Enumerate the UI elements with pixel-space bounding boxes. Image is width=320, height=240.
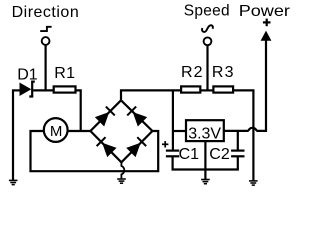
switch S2 Speed contact circle <box>204 37 212 45</box>
wire rail down to regulator input (T at x=173.3) <box>172 90 174 150</box>
diode D1 cathode bar with hooks <box>29 82 35 97</box>
svg-text:Power: Power <box>239 2 291 20</box>
wire D1 cathode to R1 <box>33 89 54 91</box>
capacitor C1 plates <box>166 151 179 157</box>
wire switch S2 down to R2/R3 node <box>206 45 208 90</box>
ground R3 drop <box>249 181 258 185</box>
wire C1 bottom lead to cap rail <box>173 156 238 169</box>
bridge diode lower-left <box>96 136 117 157</box>
wire motor left to loop corner <box>31 131 159 171</box>
node wire D1 anode to left rail <box>12 89 21 91</box>
bridge diode upper-right <box>126 106 147 127</box>
resistor R2 body <box>181 86 200 92</box>
bridge diode upper-left <box>95 106 116 127</box>
svg-text:D1: D1 <box>17 66 38 83</box>
diode D1 (schottky) triangle <box>20 83 32 97</box>
switch S1 Direction contact circle <box>42 37 50 45</box>
svg-text:C1: C1 <box>179 146 200 163</box>
power input arrow head <box>261 31 272 41</box>
wire regulator bottom pin to rail and ground <box>204 141 206 179</box>
bridge diamond wires <box>90 100 152 162</box>
wire R1 right then down to motor node <box>76 90 81 131</box>
svg-text:Direction: Direction <box>12 4 80 21</box>
wire R2 to R3 <box>200 89 213 91</box>
wire bridge bottom vertex to hop <box>121 162 124 178</box>
svg-text:M: M <box>50 123 63 140</box>
svg-text:R3: R3 <box>212 64 235 81</box>
label + of C1 <box>162 141 168 147</box>
wire switch S1 down to D1/R1 node <box>44 45 46 91</box>
switch S1 Direction lever <box>40 27 51 31</box>
resistor R3 body <box>213 86 233 92</box>
wire motor right to bridge left vertex <box>68 130 90 132</box>
label + of Power <box>263 19 271 27</box>
regulator U1 box <box>186 120 224 141</box>
ground regulator pin <box>201 180 210 184</box>
wire R3 right then down to ground <box>233 90 253 180</box>
wire C2 top lead <box>237 131 239 151</box>
ground left rail <box>9 180 18 184</box>
svg-text:Speed: Speed <box>184 2 230 19</box>
ground bridge bottom <box>117 179 126 183</box>
bridge diode lower-right <box>126 136 147 157</box>
resistor R1 body <box>54 86 76 92</box>
svg-text:R2: R2 <box>181 64 204 81</box>
wire hop over R3 drop <box>249 128 257 131</box>
wire bridge top vertex riser to rail <box>121 90 180 100</box>
svg-text:3.3V: 3.3V <box>188 126 221 143</box>
wire regulator left pin <box>172 130 185 132</box>
switch S2 Speed squiggle <box>202 25 213 32</box>
wire power arrow down <box>256 40 266 131</box>
svg-text:R1: R1 <box>54 65 75 82</box>
wire left rail down to ground <box>12 90 14 181</box>
motor M1 circle <box>44 118 68 142</box>
svg-text:C2: C2 <box>209 146 230 163</box>
capacitor C2 plates <box>231 151 244 157</box>
wire power to regulator input and C2 <box>224 130 249 132</box>
